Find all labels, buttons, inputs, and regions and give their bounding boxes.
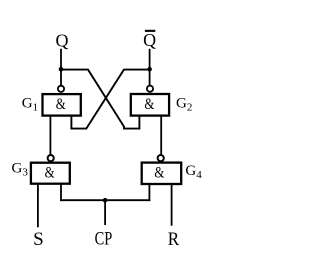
wire Q-bar branch to G1 input (horizontal, diagonal, hook) bbox=[71, 70, 149, 129]
svg-text:R: R bbox=[168, 229, 180, 250]
gate G4 output bubble bbox=[158, 155, 164, 161]
svg-text:&: & bbox=[45, 165, 55, 182]
wire R input bbox=[171, 184, 173, 226]
gate G1 (NAND) body bbox=[43, 94, 81, 116]
svg-text:S: S bbox=[33, 229, 44, 250]
svg-text:Q: Q bbox=[56, 30, 69, 50]
wire G3 right input down to CP bus bbox=[60, 184, 62, 201]
node CP junction bbox=[103, 198, 108, 203]
gate G3 output bubble bbox=[48, 155, 54, 161]
wire CP horizontal bus bbox=[60, 199, 150, 201]
gate G3 (NAND) body bbox=[31, 163, 70, 184]
svg-text:Q: Q bbox=[143, 30, 156, 50]
gate G2 (NAND) body bbox=[131, 94, 169, 116]
svg-text:&: & bbox=[154, 164, 164, 181]
node Q junction bbox=[59, 67, 64, 72]
wire CP vertical bbox=[104, 200, 106, 225]
svg-text:&: & bbox=[56, 96, 66, 113]
wire Q vertical bbox=[60, 49, 62, 85]
svg-text:&: & bbox=[144, 96, 154, 113]
wire G4 left input down to CP bus bbox=[148, 184, 150, 201]
node Q-bar label bbox=[143, 30, 156, 50]
gate G4 (NAND) body bbox=[142, 163, 182, 184]
wire Q-bar vertical bbox=[149, 49, 151, 85]
node Q-bar junction bbox=[147, 67, 152, 72]
svg-text:CP: CP bbox=[95, 228, 113, 249]
wire G4 output to G2 input bbox=[160, 116, 162, 155]
wire S input bbox=[37, 184, 39, 228]
gate G1 output bubble bbox=[58, 86, 64, 92]
wire Q branch to G2 input (horizontal, diagonal, hook) bbox=[61, 70, 139, 129]
gate G2 output bubble bbox=[147, 86, 153, 92]
wire G3 output to G1 input bbox=[49, 116, 51, 155]
